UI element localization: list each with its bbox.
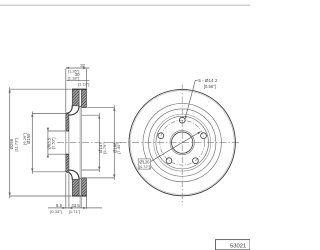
bolt circle (dash-dot) xyxy=(160,120,205,165)
dim line Ø159 xyxy=(32,111,65,173)
dim 30 line xyxy=(66,80,89,82)
center hole edges in section xyxy=(66,131,69,154)
hat S-transition top outer xyxy=(66,105,73,113)
vent floor bottom xyxy=(79,177,87,180)
label box Ø120 [4.72"] xyxy=(138,159,150,169)
svg-text:5 - Ø14.2: 5 - Ø14.2 xyxy=(198,78,218,83)
flange hatched section top xyxy=(66,113,69,131)
leader Ø120 through center to upper-right bolt hole xyxy=(151,132,201,162)
rotor OD top cap xyxy=(72,88,87,90)
hat S-transition bottom inner xyxy=(69,170,79,180)
bolt hole top xyxy=(179,117,185,123)
hat inner circle Ø147 xyxy=(156,116,209,169)
outer rim chamfer circle xyxy=(130,91,234,195)
svg-text:[2.50"]: [2.50"] xyxy=(51,138,56,149)
rotor section: inboard plate top (hatched) xyxy=(81,89,86,107)
svg-text:[5.79"]: [5.79"] xyxy=(102,142,107,153)
rotor section: inboard plate bottom (hatched) xyxy=(81,178,86,196)
dim line Ø188 xyxy=(87,105,114,180)
ring inner circle Ø188 xyxy=(149,109,216,176)
svg-text:[11.73"]: [11.73"] xyxy=(14,138,19,151)
hat circle Ø159 xyxy=(154,114,211,171)
svg-text:32: 32 xyxy=(80,63,85,68)
svg-text:[4.72"]: [4.72"] xyxy=(139,164,150,169)
bolt hole upper-left xyxy=(158,133,164,139)
vertical centerline of front view xyxy=(181,85,183,206)
svg-text:[6.26"]: [6.26"] xyxy=(22,133,27,144)
bottom dims 8.5 / 43.5 xyxy=(48,171,102,208)
vent floor top xyxy=(79,106,87,109)
dim line Ø147 xyxy=(82,113,100,172)
svg-text:[0.33"]: [0.33"] xyxy=(50,209,61,214)
bolt hole lower-left xyxy=(166,158,172,164)
svg-text:[1.71"]: [1.71"] xyxy=(69,209,80,214)
rotor section: outboard plate top (hatched) xyxy=(72,89,79,106)
hat S-transition top inner xyxy=(69,106,79,116)
bolt hole lower-right xyxy=(193,158,199,164)
top border rule xyxy=(0,5,250,6)
svg-text:8.5: 8.5 xyxy=(56,203,63,208)
svg-text:53021: 53021 xyxy=(230,243,246,249)
vent edge extension lines through hat hollow xyxy=(80,107,81,208)
pad sweep circle xyxy=(143,103,221,181)
rotor section: outboard plate bottom (hatched) xyxy=(72,179,79,196)
hat S-transition bottom outer xyxy=(66,172,73,180)
front view outer circle xyxy=(129,89,235,195)
part number box xyxy=(216,240,251,250)
center hole chamfer xyxy=(170,130,194,154)
center hole xyxy=(172,132,193,153)
centerline horizontal xyxy=(57,142,241,144)
svg-text:[1.12"]: [1.12"] xyxy=(78,81,89,86)
bolt hole upper-right xyxy=(201,133,207,139)
hub bore walls through hole region xyxy=(66,131,69,154)
dim line Ø63.5 xyxy=(48,128,66,158)
svg-text:[7.40"]: [7.40"] xyxy=(116,142,121,153)
svg-text:[0.56"]: [0.56"] xyxy=(204,84,216,89)
leader 5-Ø14.2 to top bolt hole xyxy=(186,80,198,117)
svg-text:[1.18"]: [1.18"] xyxy=(68,75,79,80)
dim line Ø298 xyxy=(10,87,72,198)
dim 32 top line xyxy=(66,68,90,113)
rotor OD bottom cap xyxy=(72,195,87,197)
svg-text:43.5: 43.5 xyxy=(71,203,80,208)
flange hatched section bottom xyxy=(66,154,69,172)
